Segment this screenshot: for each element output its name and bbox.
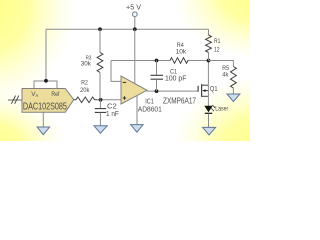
svg-text:ZXMP6A17: ZXMP6A17 xyxy=(163,96,196,105)
svg-text:100 pF: 100 pF xyxy=(165,75,186,82)
svg-text:Ref: Ref xyxy=(51,91,59,98)
resistor R5 (4k) vertical xyxy=(230,67,236,88)
junction: output/C1 bottom xyxy=(155,89,159,93)
wire: op-amp V- pin to ground xyxy=(136,95,138,124)
svg-text:Laser: Laser xyxy=(215,106,229,113)
wire: +5V terminal to rail xyxy=(134,17,136,30)
svg-text:4k: 4k xyxy=(222,71,229,78)
diode: laser diode xyxy=(204,106,212,113)
wire: op-amp output to Q1 gate xyxy=(147,90,198,92)
ground: laser ground symbol xyxy=(203,127,216,135)
wire: laser to ground xyxy=(208,114,210,128)
wire: sense node down through Q1 to laser xyxy=(207,61,209,107)
svg-text:+5 V: +5 V xyxy=(126,4,141,11)
svg-text:20k: 20k xyxy=(80,87,90,94)
wire: rail down to R3 xyxy=(99,29,101,52)
wire: DAC pin header connecting VA and Ref xyxy=(34,81,57,89)
Q1 body lead with arrow xyxy=(205,90,208,92)
Q1 drain lead bottom xyxy=(202,95,209,97)
junction: R1/R4/Q1/R5 sense node xyxy=(207,59,211,63)
svg-text:12: 12 xyxy=(214,47,220,54)
wire: feedback horizontal line xyxy=(111,60,170,62)
junction: rail/+5V xyxy=(133,27,137,31)
svg-text:R1: R1 xyxy=(214,38,221,45)
resistor R4 (10k) horizontal xyxy=(170,58,188,64)
junction: DAC pins node xyxy=(44,79,48,83)
svg-text:R2: R2 xyxy=(81,79,88,86)
svg-text:DAC102S085: DAC102S085 xyxy=(23,101,67,112)
svg-text:30k: 30k xyxy=(81,61,92,68)
wire: op-amp V+ supply xyxy=(134,29,136,83)
wire: digital input bus stub xyxy=(8,99,23,101)
svg-text:1 nF: 1 nF xyxy=(106,111,119,118)
wire: R3 bottom to node xyxy=(99,73,101,100)
wire: sense node to R5 xyxy=(209,61,234,67)
resistor R3 (30k) vertical xyxy=(97,53,103,73)
junction: rail/R3 xyxy=(98,27,102,31)
resistor R2 (20k) horizontal xyxy=(74,97,97,103)
op-amp minus sign xyxy=(123,81,127,83)
op-amp IC1 triangle xyxy=(121,76,147,104)
bus slash marks xyxy=(11,96,18,104)
laser light arrows xyxy=(211,105,215,111)
op-amp plus sign xyxy=(123,96,127,100)
Q1 gate bar xyxy=(197,86,199,92)
wire: R2 to +input with junction xyxy=(97,99,121,101)
wire: R4 right to sense node xyxy=(188,60,208,62)
wire: DAC to ground xyxy=(42,112,44,127)
svg-text:VA: VA xyxy=(31,91,38,98)
DAC U: DAC102S085 body xyxy=(22,89,74,113)
wire: +5V top rail xyxy=(46,28,209,30)
capacitor C1 (100 pF) xyxy=(156,61,158,76)
svg-text:AD8601: AD8601 xyxy=(138,104,162,113)
wire: feedback from 60.5 line down to inverting input xyxy=(111,61,121,82)
svg-text:10k: 10k xyxy=(176,49,187,56)
ground: DAC ground symbol xyxy=(37,127,50,135)
Q1 channel bar xyxy=(201,84,203,97)
capacitor C2 (1 nF) xyxy=(99,100,101,108)
Q1 source lead top xyxy=(202,84,209,86)
svg-text:C2: C2 xyxy=(107,103,117,110)
junction: C1 top / R4 left xyxy=(155,59,159,63)
ground: R5 ground symbol xyxy=(227,94,240,102)
ground: op-amp ground symbol xyxy=(131,125,144,133)
resistor R1 (12) vertical xyxy=(208,29,210,35)
junction: R2/R3/C2 node xyxy=(99,98,103,102)
ground: C2 ground symbol xyxy=(94,126,107,133)
wire: left vertical from rail to DAC pins xyxy=(45,29,47,80)
svg-text:Q1: Q1 xyxy=(210,86,218,93)
